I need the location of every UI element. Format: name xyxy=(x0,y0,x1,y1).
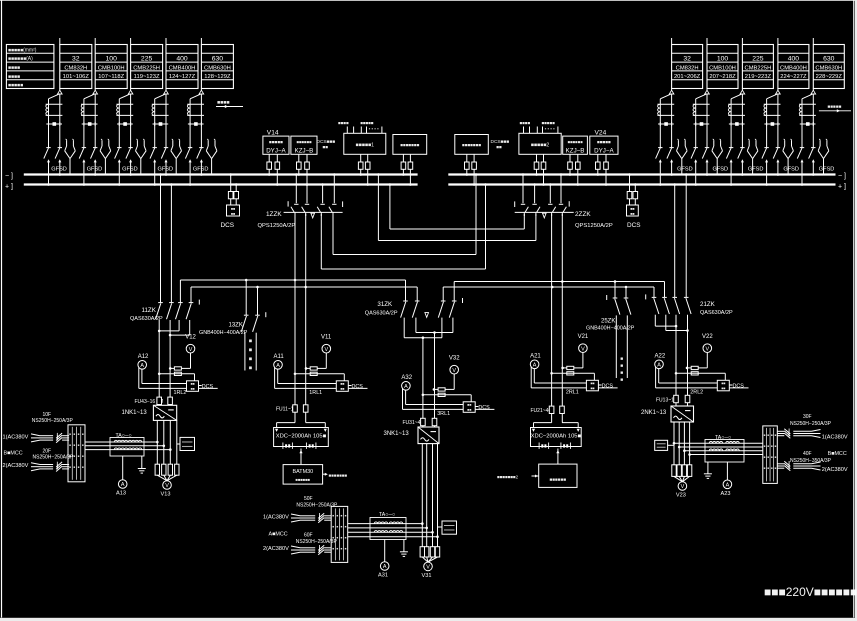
svg-text:QAS630A/2P: QAS630A/2P xyxy=(700,310,733,316)
svg-text:V: V xyxy=(426,565,430,571)
metering cluster V11 A11 shunt 1RL1 with DCS transducer xyxy=(274,334,368,396)
svg-text:B■MCC: B■MCC xyxy=(4,450,23,456)
microcomputer insulation monitor 2 with fused taps xyxy=(455,135,489,186)
svg-text:V: V xyxy=(165,483,169,489)
test supply breaker 25ZK GNB400H-400A/2P xyxy=(586,282,635,332)
three-phase incomer 50F to ATS charger 3 xyxy=(291,513,331,523)
svg-text:A: A xyxy=(533,363,537,369)
svg-text:■■: ■■ xyxy=(231,207,235,211)
svg-text:2(AC380V: 2(AC380V xyxy=(263,546,289,552)
metering cluster V32 A32 shunt 3RL1 with DCS transducer xyxy=(401,355,494,417)
svg-text:CM832H: CM832H xyxy=(64,65,87,71)
lamp signal stubs and label on supervisor 2 xyxy=(537,120,558,133)
svg-text:V: V xyxy=(452,368,456,374)
left table column 107~118Z xyxy=(95,38,127,89)
accident signal stubs and label on supervisor 2 xyxy=(520,120,531,133)
three-phase incomer 20F to ATS charger 1 xyxy=(31,462,69,472)
svg-text:40F: 40F xyxy=(803,451,812,457)
svg-text:■: ■ xyxy=(775,433,777,437)
svg-text:TA○─○: TA○─○ xyxy=(116,433,132,439)
svg-text:■: ■ xyxy=(620,357,623,362)
svg-text:■■■■: ■■■■ xyxy=(338,120,349,125)
charger module 2NK1-13 (AC/DC rectifier) xyxy=(641,406,694,422)
dual supply auto transfer switch charger 2 xyxy=(763,426,778,484)
lightning arrester box charger 1 xyxy=(177,437,195,450)
svg-text:■■: ■■ xyxy=(340,382,344,386)
svg-text:CMB225H: CMB225H xyxy=(133,65,160,71)
svg-text:■: ■ xyxy=(767,455,769,459)
voltage relay box DYJ-A (V24) with fused taps xyxy=(590,136,618,186)
svg-text:V: V xyxy=(705,346,709,352)
svg-text:1NK1~13: 1NK1~13 xyxy=(122,410,148,416)
earth connection charger 3 transformer xyxy=(400,540,408,557)
svg-text:1RL1: 1RL1 xyxy=(309,390,322,396)
wire 31ZK to charger 3NK pole B xyxy=(434,333,436,428)
svg-text:■■■■■■: ■■■■■■ xyxy=(567,139,583,144)
charger module 1NK1-13 (AC/DC rectifier) xyxy=(122,405,177,420)
svg-text:■■: ■■ xyxy=(590,382,594,386)
svg-text:■: ■ xyxy=(764,433,766,437)
svg-text:■■■220V■■■■■■■: ■■■220V■■■■■■■ xyxy=(764,585,857,599)
svg-text:1RL2: 1RL2 xyxy=(174,390,187,396)
31ZK pole joining links xyxy=(404,318,453,339)
battery bank 1 XDC-2000Ah 105 cells xyxy=(274,423,329,449)
svg-text:2RL2: 2RL2 xyxy=(690,390,703,396)
svg-text:■: ■ xyxy=(78,465,80,469)
svg-text:■■■■■(mm²): ■■■■■(mm²) xyxy=(8,47,37,53)
svg-text:V: V xyxy=(581,346,585,352)
svg-text:400: 400 xyxy=(788,56,800,63)
svg-text:■: ■ xyxy=(336,513,338,517)
svg-text:■: ■ xyxy=(73,432,75,436)
wire tie rail H-B between 11ZK and 31ZK xyxy=(191,286,417,303)
feeder branch 228~229Z with breaker CMB630H and disconnects xyxy=(797,89,834,186)
svg-text:■: ■ xyxy=(69,432,71,436)
svg-text:■■■■■: ■■■■■ xyxy=(269,139,283,144)
DCS monitoring network label left xyxy=(317,139,336,149)
svg-text:NS250H−250A/3P: NS250H−250A/3P xyxy=(790,421,832,427)
right feeder stub above table col 5 xyxy=(812,38,814,45)
svg-text:■■■■■■■: ■■■■■■■ xyxy=(329,473,348,478)
wire 21ZK to charger 2NK pole A xyxy=(675,326,677,406)
svg-text:DYJ−A: DYJ−A xyxy=(266,147,286,154)
wire tie rail H-B2 between 31ZK and 21ZK xyxy=(443,286,654,301)
svg-text:■: ■ xyxy=(767,444,769,448)
svg-text:■: ■ xyxy=(332,546,334,550)
charger 2 three-phase wires rectifier to ATS xyxy=(673,442,763,456)
earth connection charger 2 transformer xyxy=(704,462,712,478)
svg-text:2RL1: 2RL1 xyxy=(566,390,579,396)
svg-text:GFSD: GFSD xyxy=(748,167,764,173)
insulation monitor box KZJ-B left with fused taps xyxy=(291,136,317,186)
wire tie rail H-A between 11ZK and 31ZK xyxy=(180,279,405,303)
svg-text:■: ■ xyxy=(69,465,71,469)
feeder branch 219~223Z with breaker CMB225H and disconnects xyxy=(726,89,763,186)
svg-text:■■■■■: ■■■■■ xyxy=(542,120,556,125)
svg-text:■: ■ xyxy=(620,378,623,383)
isolation transformer TA charger 2 xyxy=(705,435,744,462)
svg-text:■■■■■■■: ■■■■■■■ xyxy=(462,143,481,148)
svg-text:A31: A31 xyxy=(378,573,388,579)
left table column 128~129Z xyxy=(201,38,233,89)
metering cluster V12 A12 shunt 1RL2 with DCS transducer xyxy=(138,334,218,396)
svg-text:2ZZK: 2ZZK xyxy=(575,211,591,218)
svg-text:■: ■ xyxy=(620,371,623,376)
svg-text:■■■■■■: ■■■■■■ xyxy=(296,477,311,482)
svg-text:V13: V13 xyxy=(161,492,171,498)
svg-text:CM832H: CM832H xyxy=(676,65,699,71)
left feeder stub above table col 4 xyxy=(165,38,167,45)
left feeder stub above table col 1 xyxy=(59,38,61,45)
metering cluster V21 A21 shunt 2RL1 with DCS transducer xyxy=(530,334,618,396)
svg-text:25ZK: 25ZK xyxy=(601,319,615,325)
svg-text:V24: V24 xyxy=(595,129,607,136)
wire 11ZK to charger 1NK pole A xyxy=(158,331,160,405)
svg-text:■■■■■: ■■■■■ xyxy=(828,104,842,109)
svg-text:A32: A32 xyxy=(401,375,412,381)
svg-text:■: ■ xyxy=(775,444,777,448)
svg-text:■■: ■■ xyxy=(721,386,725,390)
wire cross-tie H3 from 1ZZK to -II bus xyxy=(333,173,477,254)
svg-text:1(AC380V: 1(AC380V xyxy=(263,514,289,520)
section breaker 21ZK QAS630A/2P xyxy=(646,173,733,316)
test supply breaker 13ZK GNB400H-400A/2P xyxy=(199,280,266,336)
svg-text:A: A xyxy=(276,363,280,369)
svg-text:A: A xyxy=(404,384,408,390)
fuses FU21-46 on battery 2 circuit xyxy=(531,406,565,414)
svg-text:■■■■■: ■■■■■ xyxy=(597,139,611,144)
earth connection charger 1 transformer xyxy=(138,456,146,473)
DCS telemetry drop right section xyxy=(627,173,641,229)
svg-text:■■: ■■ xyxy=(630,207,634,211)
three-phase incomer 40F to ATS charger 2 xyxy=(777,461,820,471)
svg-text:NS250H−250A/3P: NS250H−250A/3P xyxy=(32,418,74,424)
svg-text:■: ■ xyxy=(345,524,347,528)
svg-text:TA○─○: TA○─○ xyxy=(715,435,731,441)
svg-text:FU21~46: FU21~46 xyxy=(531,408,552,414)
svg-text:■■: ■■ xyxy=(231,212,235,216)
feeder parameter table left (label column) xyxy=(6,45,54,89)
drawing frame right border xyxy=(853,0,855,618)
svg-text:CMB630H: CMB630H xyxy=(815,65,842,71)
svg-text:■■■■■■: ■■■■■■ xyxy=(549,477,566,482)
svg-text:■: ■ xyxy=(78,454,80,458)
three-phase incomer 60F to ATS charger 3 xyxy=(291,545,331,555)
svg-text:■■■■: ■■■■ xyxy=(520,120,531,125)
svg-text:GFSD: GFSD xyxy=(819,167,835,173)
right table column 219~223Z xyxy=(742,38,773,89)
svg-text:21ZK: 21ZK xyxy=(700,301,716,308)
svg-text:V: V xyxy=(189,347,193,353)
svg-text:■■■■■1: ■■■■■1 xyxy=(356,142,375,148)
bus section I positive (+I) xyxy=(24,183,418,185)
MCC incomer breaker 40F NS250H-350A/3P labels xyxy=(790,451,832,464)
svg-text:CMB100H: CMB100H xyxy=(98,65,125,71)
svg-text:A22: A22 xyxy=(655,354,666,360)
svg-text:32: 32 xyxy=(72,56,80,63)
transformer 1 ammeter tap A13 xyxy=(116,456,127,497)
svg-text:100: 100 xyxy=(717,56,729,63)
wire 1ZZK pole B down to battery 1 circuit xyxy=(304,214,307,423)
svg-text:■: ■ xyxy=(332,524,334,528)
svg-text:■: ■ xyxy=(771,466,773,470)
svg-text:■■: ■■ xyxy=(467,403,471,407)
svg-text:CMB225H: CMB225H xyxy=(745,65,772,71)
svg-text:■: ■ xyxy=(764,466,766,470)
svg-text:A21: A21 xyxy=(530,354,541,360)
lightning arrester box charger 2 xyxy=(655,440,674,450)
svg-text:225: 225 xyxy=(752,56,764,63)
svg-text:219~223Z: 219~223Z xyxy=(745,74,772,80)
svg-text:CMB400H: CMB400H xyxy=(780,65,807,71)
cable layer leader label left xyxy=(216,100,243,108)
central supervisor box 2 with fused taps xyxy=(519,133,561,186)
fuses FU13-16 on charger 2NK input xyxy=(656,395,690,403)
svg-text:31ZK: 31ZK xyxy=(377,301,393,308)
svg-text:■: ■ xyxy=(73,454,75,458)
11ZK pole joining links xyxy=(158,320,190,336)
dual supply auto transfer switch charger 3 xyxy=(331,506,348,562)
wire 2ZZK pole A down to battery 2 circuit xyxy=(551,214,554,423)
svg-text:■: ■ xyxy=(345,513,347,517)
svg-text:■■■■■: ■■■■■ xyxy=(360,120,374,125)
svg-text:V: V xyxy=(681,484,685,490)
wire cross-tie H2 from -I bus to 2ZZK xyxy=(377,173,536,240)
svg-text:DCS: DCS xyxy=(627,222,641,229)
svg-text:A: A xyxy=(121,482,125,488)
svg-text:NS250H−350A/3P: NS250H−350A/3P xyxy=(790,458,832,464)
svg-text:■: ■ xyxy=(775,466,777,470)
metering cluster V22 A22 shunt 2RL2 with DCS transducer xyxy=(655,334,749,396)
feeder branch 201~206Z with breaker CM832H and disconnects xyxy=(656,89,693,186)
svg-text:■: ■ xyxy=(345,535,347,539)
fuses FU31-40 on charger 3NK input xyxy=(403,418,437,426)
svg-text:V22: V22 xyxy=(702,334,713,340)
svg-text:A: A xyxy=(140,363,144,369)
svg-text:■: ■ xyxy=(82,443,84,447)
transformer 3 ammeter tap A31 xyxy=(378,540,389,579)
svg-text:BATM30: BATM30 xyxy=(293,469,314,475)
svg-text:■: ■ xyxy=(69,443,71,447)
feeder branch 124~127Z with breaker CMB400H and disconnects xyxy=(150,89,182,186)
svg-text:V32: V32 xyxy=(449,355,460,361)
isolation transformer TA charger 3 xyxy=(370,512,406,539)
MCC incomer breaker 60F NS250H-250A/3P labels xyxy=(296,533,338,545)
svg-text:V12: V12 xyxy=(185,334,196,340)
svg-text:■■: ■■ xyxy=(340,387,344,391)
svg-text:■■: ■■ xyxy=(590,386,594,390)
svg-text:100: 100 xyxy=(106,56,118,63)
svg-text:■■■■■■(A): ■■■■■■(A) xyxy=(8,56,33,62)
bus section II negative (-II) xyxy=(448,173,835,175)
battery 2 inspection unit xyxy=(497,449,577,488)
svg-text:V21: V21 xyxy=(578,334,589,340)
bus section II positive (+II) xyxy=(448,183,835,185)
charger 3NK AC-side fuses and voltmeter V31 xyxy=(420,444,440,579)
svg-text:■■■■: ■■■■ xyxy=(8,74,20,80)
svg-text:■■■■: ■■■■ xyxy=(8,65,20,71)
central supervisor box 1 with fused taps xyxy=(344,133,386,186)
svg-text:3RL1: 3RL1 xyxy=(437,411,450,417)
svg-text:124~127Z: 124~127Z xyxy=(169,74,196,80)
left feeder stub above table col 5 xyxy=(200,38,202,45)
voltage relay box DYJ-A (V14) with fused taps xyxy=(263,136,289,186)
feeder branch 107~118Z with breaker CMB100H and disconnects xyxy=(79,89,111,186)
svg-text:■: ■ xyxy=(341,524,343,528)
svg-text:V: V xyxy=(324,347,328,353)
21ZK pole joining links xyxy=(655,315,689,332)
feeder branch 101~106Z with breaker CM832H and disconnects xyxy=(44,89,76,186)
left table column 119~123Z xyxy=(131,38,163,89)
drawing frame left border xyxy=(1,0,3,618)
svg-text:GFSD: GFSD xyxy=(713,167,729,173)
svg-text:A12: A12 xyxy=(138,354,149,360)
svg-text:A: A xyxy=(657,363,661,369)
MCC incomer breaker 50F NS250H-250A/3P labels xyxy=(296,496,338,509)
svg-text:128~129Z: 128~129Z xyxy=(204,74,231,80)
left table column 124~127Z xyxy=(166,38,198,89)
svg-text:■: ■ xyxy=(771,444,773,448)
svg-text:GNB400H−400A/2P: GNB400H−400A/2P xyxy=(199,330,248,336)
svg-text:■: ■ xyxy=(78,432,80,436)
svg-text:KZJ−B: KZJ−B xyxy=(566,147,585,154)
bus tie breaker 1ZZK QPS1250A/2P xyxy=(258,173,343,229)
svg-text:KZJ−B: KZJ−B xyxy=(295,147,314,154)
svg-text:A: A xyxy=(726,483,730,489)
svg-text:400: 400 xyxy=(176,56,188,63)
right table column 224~227Z xyxy=(778,38,809,89)
feeder branch 224~227Z with breaker CMB400H and disconnects xyxy=(762,89,799,186)
three-phase incomer 10F to ATS charger 1 xyxy=(31,433,69,443)
svg-text:B■MCC: B■MCC xyxy=(828,451,847,457)
svg-text:CMB100H: CMB100H xyxy=(709,65,736,71)
svg-text:DCS: DCS xyxy=(221,222,235,229)
svg-text:225: 225 xyxy=(141,56,153,63)
svg-text:CMB630H: CMB630H xyxy=(204,65,231,71)
svg-text:■■: ■■ xyxy=(190,387,194,391)
svg-text:32: 32 xyxy=(683,56,691,63)
svg-text:228~229Z: 228~229Z xyxy=(816,74,843,80)
svg-text:■: ■ xyxy=(78,443,80,447)
transformer 2 ammeter tap A23 xyxy=(721,462,732,497)
svg-text:NS250H−250A/3P: NS250H−250A/3P xyxy=(296,539,338,545)
svg-text:1(AC380V: 1(AC380V xyxy=(3,434,29,440)
wire 21ZK to charger 2NK pole B xyxy=(687,331,689,407)
svg-text:V14: V14 xyxy=(267,129,279,136)
svg-text:10F: 10F xyxy=(43,412,52,418)
svg-text:11ZK: 11ZK xyxy=(142,307,157,314)
window strip right edge xyxy=(855,0,857,621)
svg-text:■■■■■■■2: ■■■■■■■2 xyxy=(497,475,519,480)
svg-text:■■■■■■: ■■■■■■ xyxy=(296,139,312,144)
svg-text:■: ■ xyxy=(73,465,75,469)
svg-text:DYJ−A: DYJ−A xyxy=(594,147,614,154)
lightning arrester box charger 3 xyxy=(438,521,457,534)
svg-text:2(AC380V: 2(AC380V xyxy=(822,467,848,473)
right table column 201~206Z xyxy=(672,38,703,89)
svg-text:■: ■ xyxy=(336,524,338,528)
svg-text:GFSD: GFSD xyxy=(677,167,693,173)
svg-text:NS250H−250A/3P: NS250H−250A/3P xyxy=(33,455,75,461)
svg-text:207~218Z: 207~218Z xyxy=(709,74,736,80)
fuses FU11-16 on battery 1 circuit xyxy=(276,405,308,413)
svg-text:■■■■■: ■■■■■ xyxy=(8,83,23,89)
MCC incomer breaker 20F NS250H-250A/3P labels xyxy=(33,448,75,460)
charger 3 three-phase wires ATS to transformer and rectifier xyxy=(348,522,439,538)
wire 11ZK to charger 1NK pole B xyxy=(169,335,171,405)
right feeder stub above table col 1 xyxy=(671,38,673,45)
svg-text:■: ■ xyxy=(775,455,777,459)
svg-text:■: ■ xyxy=(336,546,338,550)
svg-text:1(AC380V: 1(AC380V xyxy=(822,435,848,441)
svg-text:− ]: − ] xyxy=(838,173,846,180)
svg-text:DCS: DCS xyxy=(602,383,614,389)
svg-text:■■: ■■ xyxy=(323,145,329,150)
svg-text:■: ■ xyxy=(764,444,766,448)
svg-text:■: ■ xyxy=(341,535,343,539)
svg-text:+ ]: + ] xyxy=(5,183,13,190)
charger 1 three-phase wires ATS to transformer and rectifier xyxy=(85,441,172,451)
left feeder stub above table col 2 xyxy=(94,38,96,45)
svg-text:+ ]: + ] xyxy=(838,183,846,190)
svg-text:TA○─○: TA○─○ xyxy=(379,512,395,518)
section breaker 11ZK QAS630A/2P xyxy=(130,173,199,322)
svg-text:13ZK: 13ZK xyxy=(229,322,243,328)
svg-text:A: A xyxy=(383,564,387,570)
wire cross-tie H4 from 1ZZK to +II bus xyxy=(321,183,487,269)
svg-text:■■■■■2: ■■■■■2 xyxy=(531,142,550,148)
svg-text:■: ■ xyxy=(345,546,347,550)
cable layer leader label right xyxy=(819,104,851,112)
right table column 207~218Z xyxy=(707,38,738,89)
left feeder stub above table col 3 xyxy=(130,38,132,45)
svg-text:QAS630A/2P: QAS630A/2P xyxy=(130,316,163,322)
dual supply auto transfer switch charger 1 xyxy=(68,425,85,482)
svg-text:V23: V23 xyxy=(676,493,686,499)
feeder branch 119~123Z with breaker CMB225H and disconnects xyxy=(115,89,147,186)
wire tie rail H-A2 between 31ZK and 21ZK xyxy=(454,280,664,301)
svg-text:630: 630 xyxy=(823,56,835,63)
13ZK outgoing test supply wires with label xyxy=(245,333,256,372)
fuses FU43-16 on charger 1NK input xyxy=(135,397,173,405)
svg-text:60F: 60F xyxy=(304,533,313,539)
wire 2ZZK pole B down to battery 2 circuit xyxy=(561,214,564,423)
svg-text:GFSD: GFSD xyxy=(51,167,67,173)
svg-text:101~106Z: 101~106Z xyxy=(63,74,90,80)
right feeder stub above table col 3 xyxy=(741,38,743,45)
battery bank 2 XDC-2000Ah 105 cells xyxy=(531,423,582,449)
battery 1 inspection unit BATM30 xyxy=(283,449,347,485)
window strip bottom edge xyxy=(0,618,857,621)
svg-text:■: ■ xyxy=(341,513,343,517)
svg-text:GFSD: GFSD xyxy=(193,167,209,173)
svg-text:GFSD: GFSD xyxy=(87,167,103,173)
svg-text:■: ■ xyxy=(82,465,84,469)
right table column 228~229Z xyxy=(813,38,844,89)
svg-text:XDC−2000Ah 105■: XDC−2000Ah 105■ xyxy=(531,434,582,440)
svg-text:DCS: DCS xyxy=(202,384,214,390)
svg-text:QPS1250A/2P: QPS1250A/2P xyxy=(258,223,296,229)
svg-text:GFSD: GFSD xyxy=(122,167,138,173)
svg-text:■■: ■■ xyxy=(630,212,634,216)
25ZK outgoing test supply wires with label xyxy=(616,315,627,383)
svg-text:A■MCC: A■MCC xyxy=(269,531,288,537)
svg-text:■: ■ xyxy=(332,513,334,517)
DCS monitoring network label right xyxy=(491,139,510,149)
svg-text:■■: ■■ xyxy=(467,408,471,412)
bus tie breaker 2ZZK QPS1250A/2P xyxy=(515,173,613,229)
svg-text:■: ■ xyxy=(771,433,773,437)
